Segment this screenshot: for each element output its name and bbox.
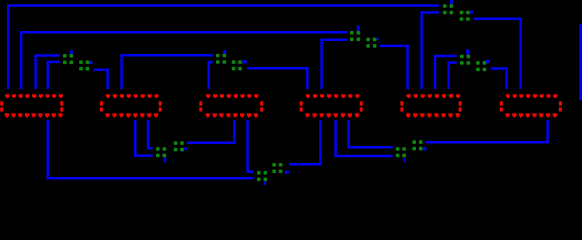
wire net25 C7.B2-IC6.p12 bbox=[425, 120, 547, 142]
wire stub C1.A2 bbox=[70, 50, 73, 55]
wire stub C6.A4 bbox=[164, 157, 167, 162]
wire stub C8.B4 bbox=[285, 171, 289, 174]
DIP package IC3 bbox=[199, 94, 263, 117]
component C2 pads bbox=[216, 54, 242, 71]
wire net10 C3.B4-IC5.p2 bbox=[380, 46, 408, 89]
wire stub C8.A4 bbox=[264, 181, 267, 185]
wire stub C7.B4 bbox=[423, 147, 427, 150]
wire stub C5.A2 bbox=[466, 49, 469, 55]
wire net7 IC3.p2-C2.A3 bbox=[209, 62, 213, 89]
wire stub C3.B2 bbox=[376, 38, 378, 40]
wire net5 C1.B4-IC2.p2 bbox=[94, 70, 108, 89]
wire net16 C5.B4-IC6.p4 bbox=[491, 69, 507, 90]
wire net3 IC1.p5-C1.A1 bbox=[36, 56, 60, 90]
component C6 pads bbox=[156, 141, 184, 157]
wire net1 IC1.p1-C4.A1 bbox=[8, 6, 439, 90]
component C5 pads bbox=[460, 55, 486, 72]
wire net23 IC4.p14-C7.A3 bbox=[336, 120, 393, 156]
DIP package IC5 bbox=[400, 94, 461, 117]
wire stub C4.A2 bbox=[450, 0, 453, 4]
component C7 pads bbox=[396, 140, 423, 157]
wire stub C5.B2 bbox=[485, 60, 490, 63]
wire net19 IC2.p15-C6.A1 bbox=[148, 120, 153, 148]
component C8 pads bbox=[257, 163, 282, 181]
wire net21 IC3.p14-C8.A1 bbox=[248, 120, 254, 172]
wire stub C2.A2 bbox=[223, 50, 226, 54]
wire net8 C2.B4-IC4.p2 bbox=[247, 68, 307, 89]
wire net2 IC1.p3-C3.A1 bbox=[21, 32, 347, 89]
wire stub C6.B4 bbox=[183, 148, 187, 150]
wire net20 C6.B2-IC3.p12 bbox=[187, 120, 235, 143]
wire net11 IC5.p4-C4.A3 bbox=[422, 13, 439, 90]
wire net13 right dead-end bbox=[579, 24, 582, 100]
wire stub C7.A4 bbox=[403, 158, 405, 163]
wire net17 IC1.p12-C8.A3 bbox=[48, 120, 254, 178]
DIP package IC2 bbox=[100, 94, 162, 117]
wire stub C4.B2 bbox=[470, 11, 473, 14]
wire stub C1.B2 bbox=[89, 61, 93, 64]
DIP package IC6 bbox=[500, 94, 562, 117]
wire net4 IC1.p7-C1.A3 bbox=[48, 62, 60, 89]
wire net24 IC4.p16-C7.A1 bbox=[349, 120, 393, 147]
wire net9 IC4.p4-C3.A3 bbox=[322, 40, 348, 89]
wire net14 IC5.p6-C5.A1 bbox=[435, 56, 457, 89]
wire stub C3.A2 bbox=[357, 25, 360, 31]
wire net22 C8.B2-IC4.p12 bbox=[289, 120, 320, 164]
wire net15 IC5.p8-C5.A3 bbox=[449, 63, 457, 89]
wire stub C2.B2 bbox=[242, 60, 247, 63]
component C1 pads bbox=[63, 54, 89, 71]
DIP package IC1 bbox=[0, 94, 63, 117]
wire net12 C4.B4-IC6.p2 bbox=[474, 19, 521, 89]
wire net6 IC2.p4-C2.A1 bbox=[122, 55, 213, 89]
component C3 pads bbox=[350, 31, 376, 48]
DIP package IC4 bbox=[300, 94, 363, 117]
component C4 pads bbox=[443, 4, 470, 21]
wire net18 IC2.p13-C6.A3 bbox=[135, 120, 152, 156]
